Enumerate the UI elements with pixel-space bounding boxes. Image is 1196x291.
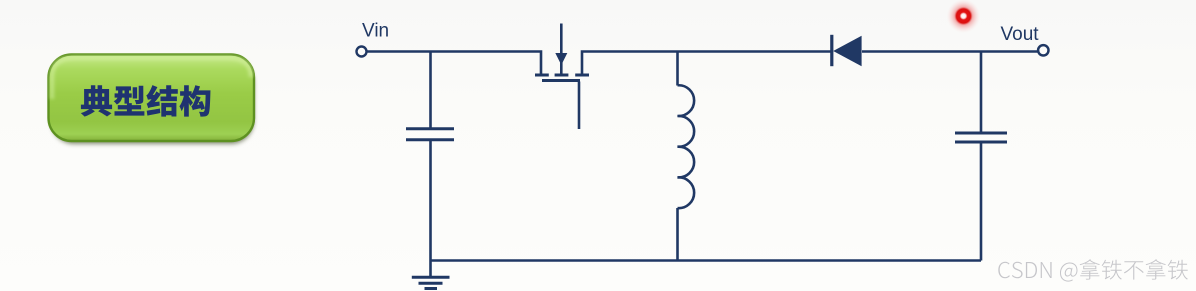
diode D1 cathode bar bbox=[830, 35, 833, 66]
inductor L1 bbox=[678, 85, 695, 208]
svg-text:Vin: Vin bbox=[362, 21, 389, 42]
wire: output cap branch down from top rail bbox=[980, 52, 983, 133]
label button 典型结构 bbox=[49, 55, 255, 145]
red recording indicator bbox=[947, 0, 981, 33]
wire: inductor bottom lead to ground rail bbox=[676, 208, 679, 261]
transistor Q1 MOSFET channel ticks and gate bar bbox=[535, 75, 589, 81]
terminal Vin bbox=[357, 47, 367, 57]
wire: bottom ground rail bbox=[431, 259, 982, 262]
terminal Vout bbox=[1038, 45, 1048, 55]
ground bbox=[412, 261, 450, 289]
wire: inductor top lead from top rail bbox=[676, 52, 679, 86]
wire: input cap branch down from top rail bbox=[429, 52, 432, 129]
wire: Q1 drain arrow lead bbox=[560, 24, 563, 57]
capacitor C2 output bbox=[955, 133, 1007, 142]
svg-text:Vout: Vout bbox=[1001, 24, 1040, 45]
watermark CSDN @拿铁不拿铁 bbox=[998, 259, 1188, 281]
wire: Vin terminal to MOSFET source drop bbox=[367, 52, 541, 74]
wire: diode cathode to Vout terminal bbox=[862, 50, 1038, 53]
diode D1 body bbox=[833, 36, 861, 66]
capacitor C1 input bbox=[406, 129, 454, 140]
wire: input cap bottom to ground rail bbox=[429, 140, 432, 261]
arrowhead on Q1 drain bbox=[555, 53, 567, 65]
wire: Q1 gate lead bbox=[578, 82, 581, 130]
wire: MOSFET drain drop up to top rail and on to diode bbox=[582, 52, 831, 74]
wire: output cap bottom to ground rail corner bbox=[980, 143, 983, 261]
